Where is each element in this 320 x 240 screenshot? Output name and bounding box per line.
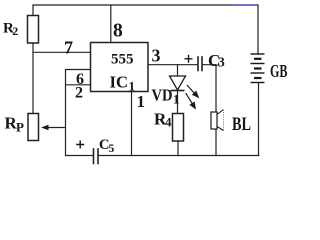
svg-text:7: 7 [64, 38, 73, 58]
svg-text:3: 3 [152, 46, 161, 66]
svg-text:3: 3 [218, 55, 225, 70]
svg-text:VD: VD [152, 85, 173, 104]
svg-text:BL: BL [232, 114, 251, 135]
svg-text:8: 8 [113, 21, 123, 42]
svg-text:2: 2 [75, 84, 83, 101]
svg-text:P: P [16, 119, 24, 134]
svg-text:555: 555 [111, 52, 134, 68]
svg-text:2: 2 [12, 24, 18, 38]
svg-text:1: 1 [173, 92, 180, 107]
svg-text:4: 4 [165, 115, 172, 130]
svg-text:1: 1 [137, 92, 146, 111]
svg-text:IC: IC [110, 73, 129, 92]
svg-text:5: 5 [109, 143, 115, 155]
svg-text:GB: GB [270, 61, 288, 81]
svg-text:1: 1 [129, 79, 136, 94]
